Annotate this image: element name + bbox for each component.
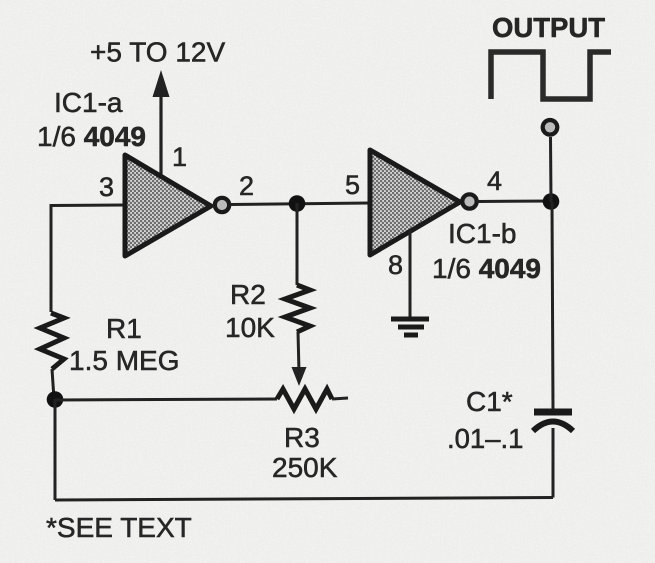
- node: junction left rail / R3 wire: [47, 391, 64, 408]
- svg-text:OUTPUT: OUTPUT: [492, 12, 605, 43]
- svg-text:IC1-b: IC1-b: [448, 218, 516, 249]
- svg-text:R3: R3: [284, 422, 320, 453]
- wire: left rail top: [50, 204, 53, 312]
- svg-text:1/6 4049: 1/6 4049: [37, 121, 146, 152]
- wire: R2 bottom to wiper arrow: [298, 332, 299, 372]
- svg-text:250K: 250K: [272, 452, 338, 483]
- wire: bottom rail: [55, 498, 553, 501]
- capacitor C1 top plate: [534, 409, 572, 416]
- svg-text:4: 4: [487, 166, 502, 196]
- svg-text:+5 TO 12V: +5 TO 12V: [90, 37, 225, 68]
- resistor R1: [40, 313, 64, 369]
- svg-text:C1*: C1*: [466, 386, 513, 417]
- node: junction at R2 tap: [289, 195, 306, 212]
- wire: pin 8 to ground: [409, 230, 412, 318]
- potentiometer R3: [277, 389, 332, 409]
- ground: [391, 319, 429, 335]
- svg-text:5: 5: [345, 170, 360, 200]
- svg-text:R2: R2: [230, 279, 266, 310]
- svg-text:IC1-a: IC1-a: [54, 87, 123, 118]
- wire: R1 to junction: [52, 369, 54, 399]
- wire: C1 bottom to bottom rail: [552, 428, 555, 498]
- wire: left rail bottom: [54, 399, 57, 500]
- inverter IC1-b (1/6 4049): [370, 150, 460, 255]
- wire: IC1-b output to output node: [477, 200, 553, 204]
- power arrow to +5-12V: [153, 70, 170, 175]
- svg-text:8: 8: [388, 250, 403, 280]
- wire: output junction down to C1: [552, 202, 553, 409]
- wire: R3 right stub: [332, 398, 348, 399]
- inverter bubble IC1-b output: [462, 194, 476, 208]
- svg-text:1/6 4049: 1/6 4049: [432, 253, 541, 284]
- svg-text:2: 2: [239, 171, 254, 201]
- wiper arrowhead onto R3: [292, 367, 307, 386]
- svg-text:.01–.1: .01–.1: [447, 423, 523, 454]
- svg-text:1: 1: [172, 142, 187, 172]
- capacitor C1 bottom curved plate: [533, 422, 573, 432]
- wire: output terminal to junction: [549, 137, 553, 202]
- svg-text:R1: R1: [106, 313, 142, 344]
- wire: junction to R3: [55, 399, 277, 400]
- node: output junction: [543, 193, 560, 210]
- square wave symbol: [491, 52, 611, 99]
- svg-text:10K: 10K: [225, 312, 275, 343]
- svg-text:*SEE TEXT: *SEE TEXT: [46, 512, 192, 543]
- svg-text:1.5 MEG: 1.5 MEG: [69, 345, 179, 376]
- resistor R2: [285, 285, 310, 332]
- wire: IC1-a output to IC1-b input: [230, 203, 370, 205]
- inverter IC1-a (1/6 4049): [125, 155, 211, 256]
- wire: pin 3 input from left rail: [51, 204, 125, 208]
- svg-text:3: 3: [99, 172, 114, 202]
- output terminal: [543, 120, 558, 135]
- wire: R2 top: [296, 203, 299, 285]
- inverter bubble IC1-a output: [215, 198, 229, 212]
